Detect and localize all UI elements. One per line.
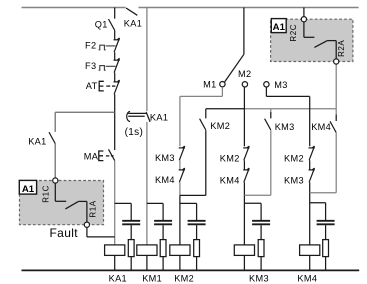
interlock contact KM2 on C4	[243, 146, 249, 160]
node M3	[264, 82, 269, 87]
wire C2 timer to coil	[146, 122, 148, 245]
relay contact KA1 (left NO)	[49, 132, 55, 143]
wire C1 F2-F3	[114, 52, 116, 60]
label box A1 left	[19, 180, 36, 195]
wire C1 AT-MA	[114, 94, 116, 150]
coil KM1	[137, 245, 157, 270]
svg-text:(1s): (1s)	[125, 127, 144, 138]
label KM2 coil bottom	[174, 274, 194, 284]
wire R1C lead	[55, 183, 66, 201]
node M2	[242, 82, 247, 87]
label KM3 interlock C3	[155, 153, 175, 163]
svg-text:KM2: KM2	[284, 154, 304, 164]
interlock contact KM4 on C3	[179, 168, 185, 182]
node M1	[220, 82, 225, 87]
latch contact KM3 (NO)	[265, 119, 271, 130]
label KM3 latch	[275, 122, 295, 132]
wire C5 between interlocks	[309, 160, 311, 170]
interlock contact KM3 on C5	[309, 168, 315, 182]
svg-text:A1: A1	[273, 22, 286, 33]
coil KA1	[105, 245, 125, 270]
capacitor+resistor snubber KA1	[115, 203, 141, 270]
svg-text:M1: M1	[203, 79, 216, 89]
node R1A terminal	[84, 222, 89, 227]
svg-text:KM3: KM3	[275, 122, 295, 132]
label KA1 coil bottom	[109, 274, 127, 284]
label M3	[274, 80, 287, 90]
svg-text:KM4: KM4	[220, 175, 240, 185]
timer contact KA1 delay (1s)	[127, 112, 150, 122]
thermal contact F2	[99, 38, 120, 52]
label F2	[85, 41, 96, 51]
label AT	[86, 81, 98, 91]
wire KM4 chain drop	[335, 109, 337, 121]
svg-text:M3: M3	[274, 80, 287, 90]
wire R2A lead	[327, 41, 336, 59]
wire C5 to coil	[309, 182, 311, 245]
label R1A	[89, 200, 98, 217]
wire C2 from top bus	[146, 8, 148, 112]
svg-text:R1C: R1C	[41, 185, 50, 203]
svg-text:KM4: KM4	[311, 122, 331, 132]
wire C3 junction to coil	[179, 195, 181, 245]
svg-text:M2: M2	[238, 69, 251, 79]
svg-text:KM3: KM3	[249, 274, 269, 284]
svg-text:KA1: KA1	[109, 274, 127, 284]
label KM4 latch	[311, 122, 331, 132]
wire KA1 contact to R1C	[54, 144, 56, 178]
wire R1A lead	[78, 201, 87, 222]
node R2A terminal	[334, 59, 339, 64]
label KM1 coil bottom	[142, 274, 162, 284]
wire C3 between interlocks	[179, 160, 181, 170]
breaker contact Q1	[109, 19, 115, 30]
wire R2A line to rail	[335, 64, 337, 109]
label KA1 timer	[150, 113, 168, 123]
label KA1 top contact	[124, 19, 142, 29]
wire KM3 chain drop	[270, 109, 272, 119]
label R2C	[289, 24, 298, 42]
label (1s)	[125, 127, 144, 138]
label KM3 interlock C5	[284, 176, 304, 186]
interlock contact KM4 on C4	[243, 168, 249, 182]
label Fault	[50, 226, 79, 240]
capacitor+resistor snubber KM4	[310, 203, 335, 271]
svg-text:KM2: KM2	[210, 121, 230, 131]
label KM2 interlock C4	[220, 153, 240, 163]
svg-text:MA: MA	[84, 152, 99, 162]
capacitor+resistor snubber KM1	[147, 203, 172, 270]
label KM3 coil bottom	[249, 274, 269, 284]
wire M2 to C4	[243, 87, 245, 146]
interlock contact KM3 on C3	[179, 146, 185, 160]
wire fault output to C1	[87, 227, 115, 237]
svg-text:KA1: KA1	[150, 113, 168, 123]
thermal contact F3	[99, 58, 120, 72]
switch R1 blade	[65, 202, 78, 209]
wire top supply bus right segment	[139, 7, 359, 9]
wire KM2 chain down	[180, 130, 206, 195]
label MA	[84, 152, 99, 162]
svg-text:A1: A1	[22, 184, 35, 195]
latch contact KM4 (NO)	[330, 121, 336, 132]
latch contact KM2 (NO)	[200, 119, 206, 130]
wire KM4 chain down	[310, 133, 337, 193]
wire C1 MA to coil	[114, 161, 116, 245]
coil KM4	[300, 245, 320, 270]
svg-text:KA1: KA1	[124, 19, 142, 29]
wire selector feed from bus	[243, 8, 245, 55]
label KM4 interlock C4	[220, 175, 240, 185]
svg-text:F3: F3	[85, 61, 96, 71]
capacitor+resistor snubber KM3	[244, 203, 270, 270]
svg-text:KM3: KM3	[155, 153, 175, 163]
svg-text:KA1: KA1	[28, 137, 46, 147]
wire C4 between interlocks	[243, 160, 245, 170]
coil KM2	[170, 245, 190, 270]
wire top supply bus left segment	[22, 7, 126, 9]
label KM2 latch	[210, 121, 230, 131]
selector blade M	[225, 54, 244, 82]
svg-text:R1A: R1A	[89, 200, 98, 217]
svg-text:KM4: KM4	[297, 274, 317, 284]
svg-text:KM4: KM4	[155, 175, 175, 185]
svg-text:KM2: KM2	[174, 274, 194, 284]
node R1C terminal	[53, 178, 58, 183]
label KM4 coil bottom	[297, 274, 317, 284]
label KM2 interlock C5	[284, 154, 304, 164]
svg-text:KM1: KM1	[142, 274, 162, 284]
label M1	[203, 79, 216, 89]
label box A1 right	[271, 19, 286, 34]
label M2	[238, 69, 251, 79]
wire KM3 chain down	[244, 130, 270, 195]
svg-text:Q1: Q1	[95, 20, 108, 30]
wire M3 to C5	[266, 87, 309, 146]
wire C1 Q1-F2	[114, 30, 116, 40]
module A1 fault relay box R2	[271, 19, 353, 61]
label R2A	[337, 40, 346, 57]
pushbutton contact AT (NC)	[99, 80, 120, 94]
wire C4 to coil	[243, 182, 245, 245]
label Q1	[95, 20, 108, 30]
module A1 fault relay box R1	[20, 181, 104, 225]
capacitor+resistor snubber KM2	[180, 203, 206, 270]
label R1C	[41, 185, 50, 203]
wire mid rail	[206, 108, 336, 110]
wire KM2 chain drop	[205, 109, 207, 119]
label KM4 interlock C3	[155, 175, 175, 185]
svg-text:R2C: R2C	[289, 24, 298, 42]
svg-text:KM3: KM3	[284, 176, 304, 186]
node R2C terminal	[301, 17, 306, 22]
wire bottom supply bus	[22, 269, 360, 271]
switch R2 blade	[314, 41, 327, 48]
coil KM3	[234, 245, 254, 270]
wire C3 to junction	[179, 182, 181, 195]
svg-text:KM2: KM2	[220, 153, 240, 163]
svg-text:F2: F2	[85, 41, 96, 51]
wire C1 F3-AT	[114, 73, 116, 82]
wire C1 top terminal	[114, 8, 116, 19]
wire R2C lead	[304, 22, 315, 38]
wire M1 to C3	[180, 87, 223, 146]
interlock contact KM2 on C5	[309, 146, 315, 160]
svg-text:R2A: R2A	[337, 40, 346, 57]
wire R2C drop from bus	[303, 8, 305, 17]
pushbutton contact MA (NO)	[99, 149, 115, 160]
label KA1 left	[28, 137, 46, 147]
svg-text:Fault: Fault	[50, 226, 79, 240]
relay contact KA1 (top bus NO contact)	[126, 8, 137, 15]
label F3	[85, 61, 96, 71]
wire left branch tap	[55, 112, 114, 132]
svg-text:AT: AT	[86, 81, 98, 91]
